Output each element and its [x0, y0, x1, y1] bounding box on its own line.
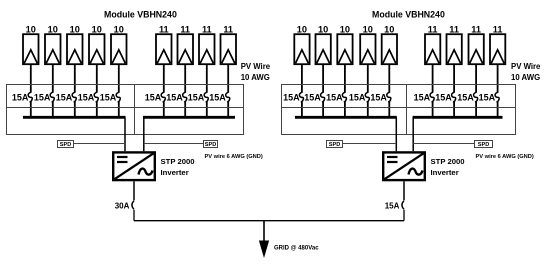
- svg-text:Inverter: Inverter: [161, 168, 189, 177]
- bus bar 1 (left): [23, 116, 126, 119]
- svg-text:10: 10: [114, 24, 124, 34]
- svg-text:SPD: SPD: [329, 142, 341, 148]
- wire: inverter AC output down (left): [133, 181, 135, 200]
- SPD surge protector 1 (right): [327, 141, 343, 149]
- fuse 15A (right string 2): [321, 92, 325, 102]
- inverter U-left: STP 2000 box with DC/AC symbol: [113, 152, 155, 180]
- svg-text:11: 11: [449, 24, 459, 34]
- combiner box 1 (left): [7, 85, 135, 135]
- fuse 15A (right string 4): [365, 92, 369, 102]
- combiner box 1 (right): [282, 85, 407, 135]
- wire: left module 5 lead down to fuse: [118, 64, 120, 92]
- wire: left string 3 fuse to bus bar: [74, 102, 76, 118]
- svg-text:10: 10: [363, 24, 373, 34]
- wire: bus bar 2 to inverter DC input (left): [143, 117, 145, 151]
- svg-text:10: 10: [48, 24, 58, 34]
- PV module 10 (string label 10): [337, 34, 352, 64]
- wire: right string 1 fuse to bus bar: [301, 102, 303, 118]
- inverter U-right: STP 2000 box with DC/AC symbol: [383, 152, 425, 180]
- wire: left string 6 fuse to bus bar: [163, 102, 165, 118]
- svg-text:15A: 15A: [435, 92, 452, 102]
- arrow to grid (arrowhead): [259, 241, 269, 259]
- text: STP 2000 Inverter label (left): [161, 157, 195, 177]
- svg-text:SPD: SPD: [205, 142, 217, 148]
- SPD surge protector 2 (left): [204, 141, 218, 149]
- PV module 10 (string label 10): [89, 34, 105, 64]
- svg-text:15A: 15A: [12, 92, 29, 102]
- svg-text:10 AWG: 10 AWG: [241, 73, 270, 82]
- wire: left module 4 lead down to fuse: [96, 64, 98, 92]
- PV module 10 (string label 10): [294, 34, 309, 64]
- wire: left string 2 fuse to bus bar: [52, 102, 54, 118]
- SPD surge protector 2 (right): [475, 141, 493, 149]
- svg-text:PV Wire: PV Wire: [241, 62, 271, 71]
- svg-text:30A: 30A: [115, 201, 130, 210]
- svg-text:10: 10: [318, 24, 328, 34]
- svg-text:Module VBHN240: Module VBHN240: [372, 10, 445, 20]
- svg-text:15A: 15A: [385, 201, 400, 210]
- wire: right module 6 lead down to fuse: [432, 64, 434, 92]
- svg-text:GRID @ 480Vac: GRID @ 480Vac: [274, 246, 319, 252]
- svg-text:15A: 15A: [326, 92, 343, 102]
- PV module 11 (string label 11): [469, 34, 484, 64]
- fuse 15A (right string 5): [387, 92, 391, 102]
- wire: right string 9 fuse to bus bar: [497, 102, 499, 118]
- bus bar 2 (right): [413, 116, 503, 119]
- PV module 10 (string label 10): [45, 34, 61, 64]
- wire: right module 2 lead down to fuse: [322, 64, 324, 92]
- wire: left module 9 lead down to fuse: [227, 64, 229, 92]
- fuse 15A (right string 6): [430, 92, 434, 102]
- svg-text:SPD: SPD: [60, 142, 72, 148]
- wire: left string 9 fuse to bus bar: [227, 102, 229, 118]
- PV module 11 (string label 11): [490, 34, 505, 64]
- wire: AC breaker to collector line (right): [403, 210, 405, 221]
- wire: right module 5 lead down to fuse: [388, 64, 390, 92]
- wire: SPD 1 to DC wire (left): [74, 143, 126, 145]
- PV module 10 (string label 10): [67, 34, 83, 64]
- svg-text:11: 11: [180, 24, 190, 34]
- PV module 10 (string label 10): [382, 34, 397, 64]
- svg-text:PV Wire: PV Wire: [511, 62, 541, 71]
- PV module 11 (string label 11): [447, 34, 462, 64]
- svg-text:15A: 15A: [414, 92, 431, 102]
- wire: right string 3 fuse to bus bar: [344, 102, 346, 118]
- PV module 11 (string label 11): [425, 34, 440, 64]
- svg-text:15A: 15A: [56, 92, 73, 102]
- svg-text:SPD: SPD: [478, 142, 490, 148]
- svg-text:Module VBHN240: Module VBHN240: [104, 10, 177, 20]
- svg-text:10: 10: [70, 24, 80, 34]
- svg-text:15A: 15A: [209, 92, 226, 102]
- wire: left string 1 fuse to bus bar: [30, 102, 32, 118]
- svg-text:PV wire 6 AWG (GND): PV wire 6 AWG (GND): [205, 154, 263, 160]
- wire: left module 2 lead down to fuse: [52, 64, 54, 92]
- PV module 11 (string label 11): [178, 34, 194, 64]
- wire: right string 7 fuse to bus bar: [453, 102, 455, 118]
- svg-text:15A: 15A: [304, 92, 321, 102]
- wire: inverter AC output down (right): [403, 181, 405, 200]
- svg-text:15A: 15A: [370, 92, 387, 102]
- svg-text:11: 11: [223, 24, 233, 34]
- wire: left module 8 lead down to fuse: [206, 64, 208, 92]
- combiner box 2 (left): [135, 85, 244, 135]
- wire: right module 8 lead down to fuse: [475, 64, 477, 92]
- fuse 15A (left string 4): [94, 92, 98, 102]
- fuse 15A (right string 9): [495, 92, 499, 102]
- wire: left string 4 fuse to bus bar: [96, 102, 98, 118]
- svg-text:11: 11: [493, 24, 503, 34]
- svg-text:10: 10: [384, 24, 394, 34]
- PV module 11 (string label 11): [199, 34, 215, 64]
- wire: right string 8 fuse to bus bar: [475, 102, 477, 118]
- PV module 11 (string label 11): [156, 34, 172, 64]
- fuse 30A AC output breaker (left): [132, 201, 134, 210]
- inner partition line of combiner boxes (left): [7, 107, 244, 109]
- wire: right module 3 lead down to fuse: [344, 64, 346, 92]
- svg-text:10: 10: [340, 24, 350, 34]
- fuse 15A (right string 3): [342, 92, 346, 102]
- wire: bus bar 1 to inverter DC input (left): [124, 117, 126, 151]
- wire: right module 4 lead down to fuse: [367, 64, 369, 92]
- svg-text:15A: 15A: [34, 92, 51, 102]
- wire: drop to grid: [263, 221, 265, 242]
- wire: bus bar 2 to inverter DC input (right): [412, 117, 414, 151]
- fuse 15A AC output breaker (right): [402, 201, 404, 210]
- wire: AC breaker to collector line (left): [133, 210, 135, 221]
- SPD surge protector 1 (left): [58, 141, 74, 149]
- svg-text:15A: 15A: [166, 92, 183, 102]
- PV module 10 (string label 10): [360, 34, 375, 64]
- PV module 10 (string label 10): [23, 34, 39, 64]
- wire: left string 7 fuse to bus bar: [184, 102, 186, 118]
- wire: left string 8 fuse to bus bar: [206, 102, 208, 118]
- svg-text:15A: 15A: [145, 92, 162, 102]
- wire: SPD 2 to DC wire (right): [413, 143, 474, 145]
- svg-text:10: 10: [92, 24, 102, 34]
- fuse 15A (left string 8): [204, 92, 208, 102]
- PV module 11 (string label 11): [221, 34, 237, 64]
- fuse 15A (left string 9): [226, 92, 230, 102]
- svg-text:Inverter: Inverter: [431, 168, 459, 177]
- svg-text:11: 11: [428, 24, 438, 34]
- svg-text:15A: 15A: [479, 92, 496, 102]
- fuse 15A (right string 7): [452, 92, 456, 102]
- wire: SPD 2 to DC wire (left): [144, 143, 204, 145]
- svg-text:10: 10: [297, 24, 307, 34]
- wire: right string 4 fuse to bus bar: [367, 102, 369, 118]
- wire: AC collector line joining both inverters: [134, 220, 404, 222]
- wire: right string 6 fuse to bus bar: [432, 102, 434, 118]
- svg-text:11: 11: [159, 24, 169, 34]
- svg-text:11: 11: [202, 24, 212, 34]
- wire: right module 1 lead down to fuse: [301, 64, 303, 92]
- fuse 15A (left string 1): [28, 92, 32, 102]
- wire: right module 7 lead down to fuse: [453, 64, 455, 92]
- inner partition line of combiner boxes (right): [282, 107, 516, 109]
- wire: left module 7 lead down to fuse: [184, 64, 186, 92]
- fuse 15A (left string 7): [183, 92, 187, 102]
- PV module 10 (string label 10): [316, 34, 331, 64]
- text: PV Wire 10 AWG label (left): [241, 62, 271, 82]
- svg-text:PV wire 6 AWG (GND): PV wire 6 AWG (GND): [476, 154, 534, 160]
- text: PV Wire 10 AWG label (right): [511, 62, 541, 82]
- svg-text:15A: 15A: [283, 92, 300, 102]
- wire: left module 1 lead down to fuse: [30, 64, 32, 92]
- fuse 15A (right string 1): [299, 92, 303, 102]
- wire: right string 5 fuse to bus bar: [388, 102, 390, 118]
- svg-text:15A: 15A: [349, 92, 366, 102]
- svg-text:11: 11: [471, 24, 481, 34]
- fuse 15A (left string 2): [50, 92, 54, 102]
- wire: left module 3 lead down to fuse: [74, 64, 76, 92]
- wire: bus bar 1 to inverter DC input (right): [395, 117, 397, 151]
- fuse 15A (left string 5): [116, 92, 120, 102]
- svg-text:10: 10: [26, 24, 36, 34]
- wire: left module 6 lead down to fuse: [163, 64, 165, 92]
- svg-text:15A: 15A: [100, 92, 117, 102]
- wire: right string 2 fuse to bus bar: [322, 102, 324, 118]
- svg-text:15A: 15A: [457, 92, 474, 102]
- fuse 15A (right string 8): [474, 92, 478, 102]
- fuse 15A (left string 3): [72, 92, 76, 102]
- svg-text:10 AWG: 10 AWG: [511, 73, 540, 82]
- svg-text:STP 2000: STP 2000: [431, 157, 465, 166]
- fuse 15A (left string 6): [161, 92, 165, 102]
- bus bar 1 (right): [295, 116, 397, 119]
- wire: right module 9 lead down to fuse: [497, 64, 499, 92]
- text: STP 2000 Inverter label (right): [431, 157, 465, 177]
- svg-text:15A: 15A: [78, 92, 95, 102]
- svg-text:15A: 15A: [188, 92, 205, 102]
- svg-text:STP 2000: STP 2000: [161, 157, 195, 166]
- PV module 10 (string label 10): [111, 34, 127, 64]
- wire: left string 5 fuse to bus bar: [118, 102, 120, 118]
- combiner box 2 (right): [407, 85, 516, 135]
- wire: SPD 1 to DC wire (right): [343, 143, 397, 145]
- bus bar 2 (left): [143, 116, 235, 119]
